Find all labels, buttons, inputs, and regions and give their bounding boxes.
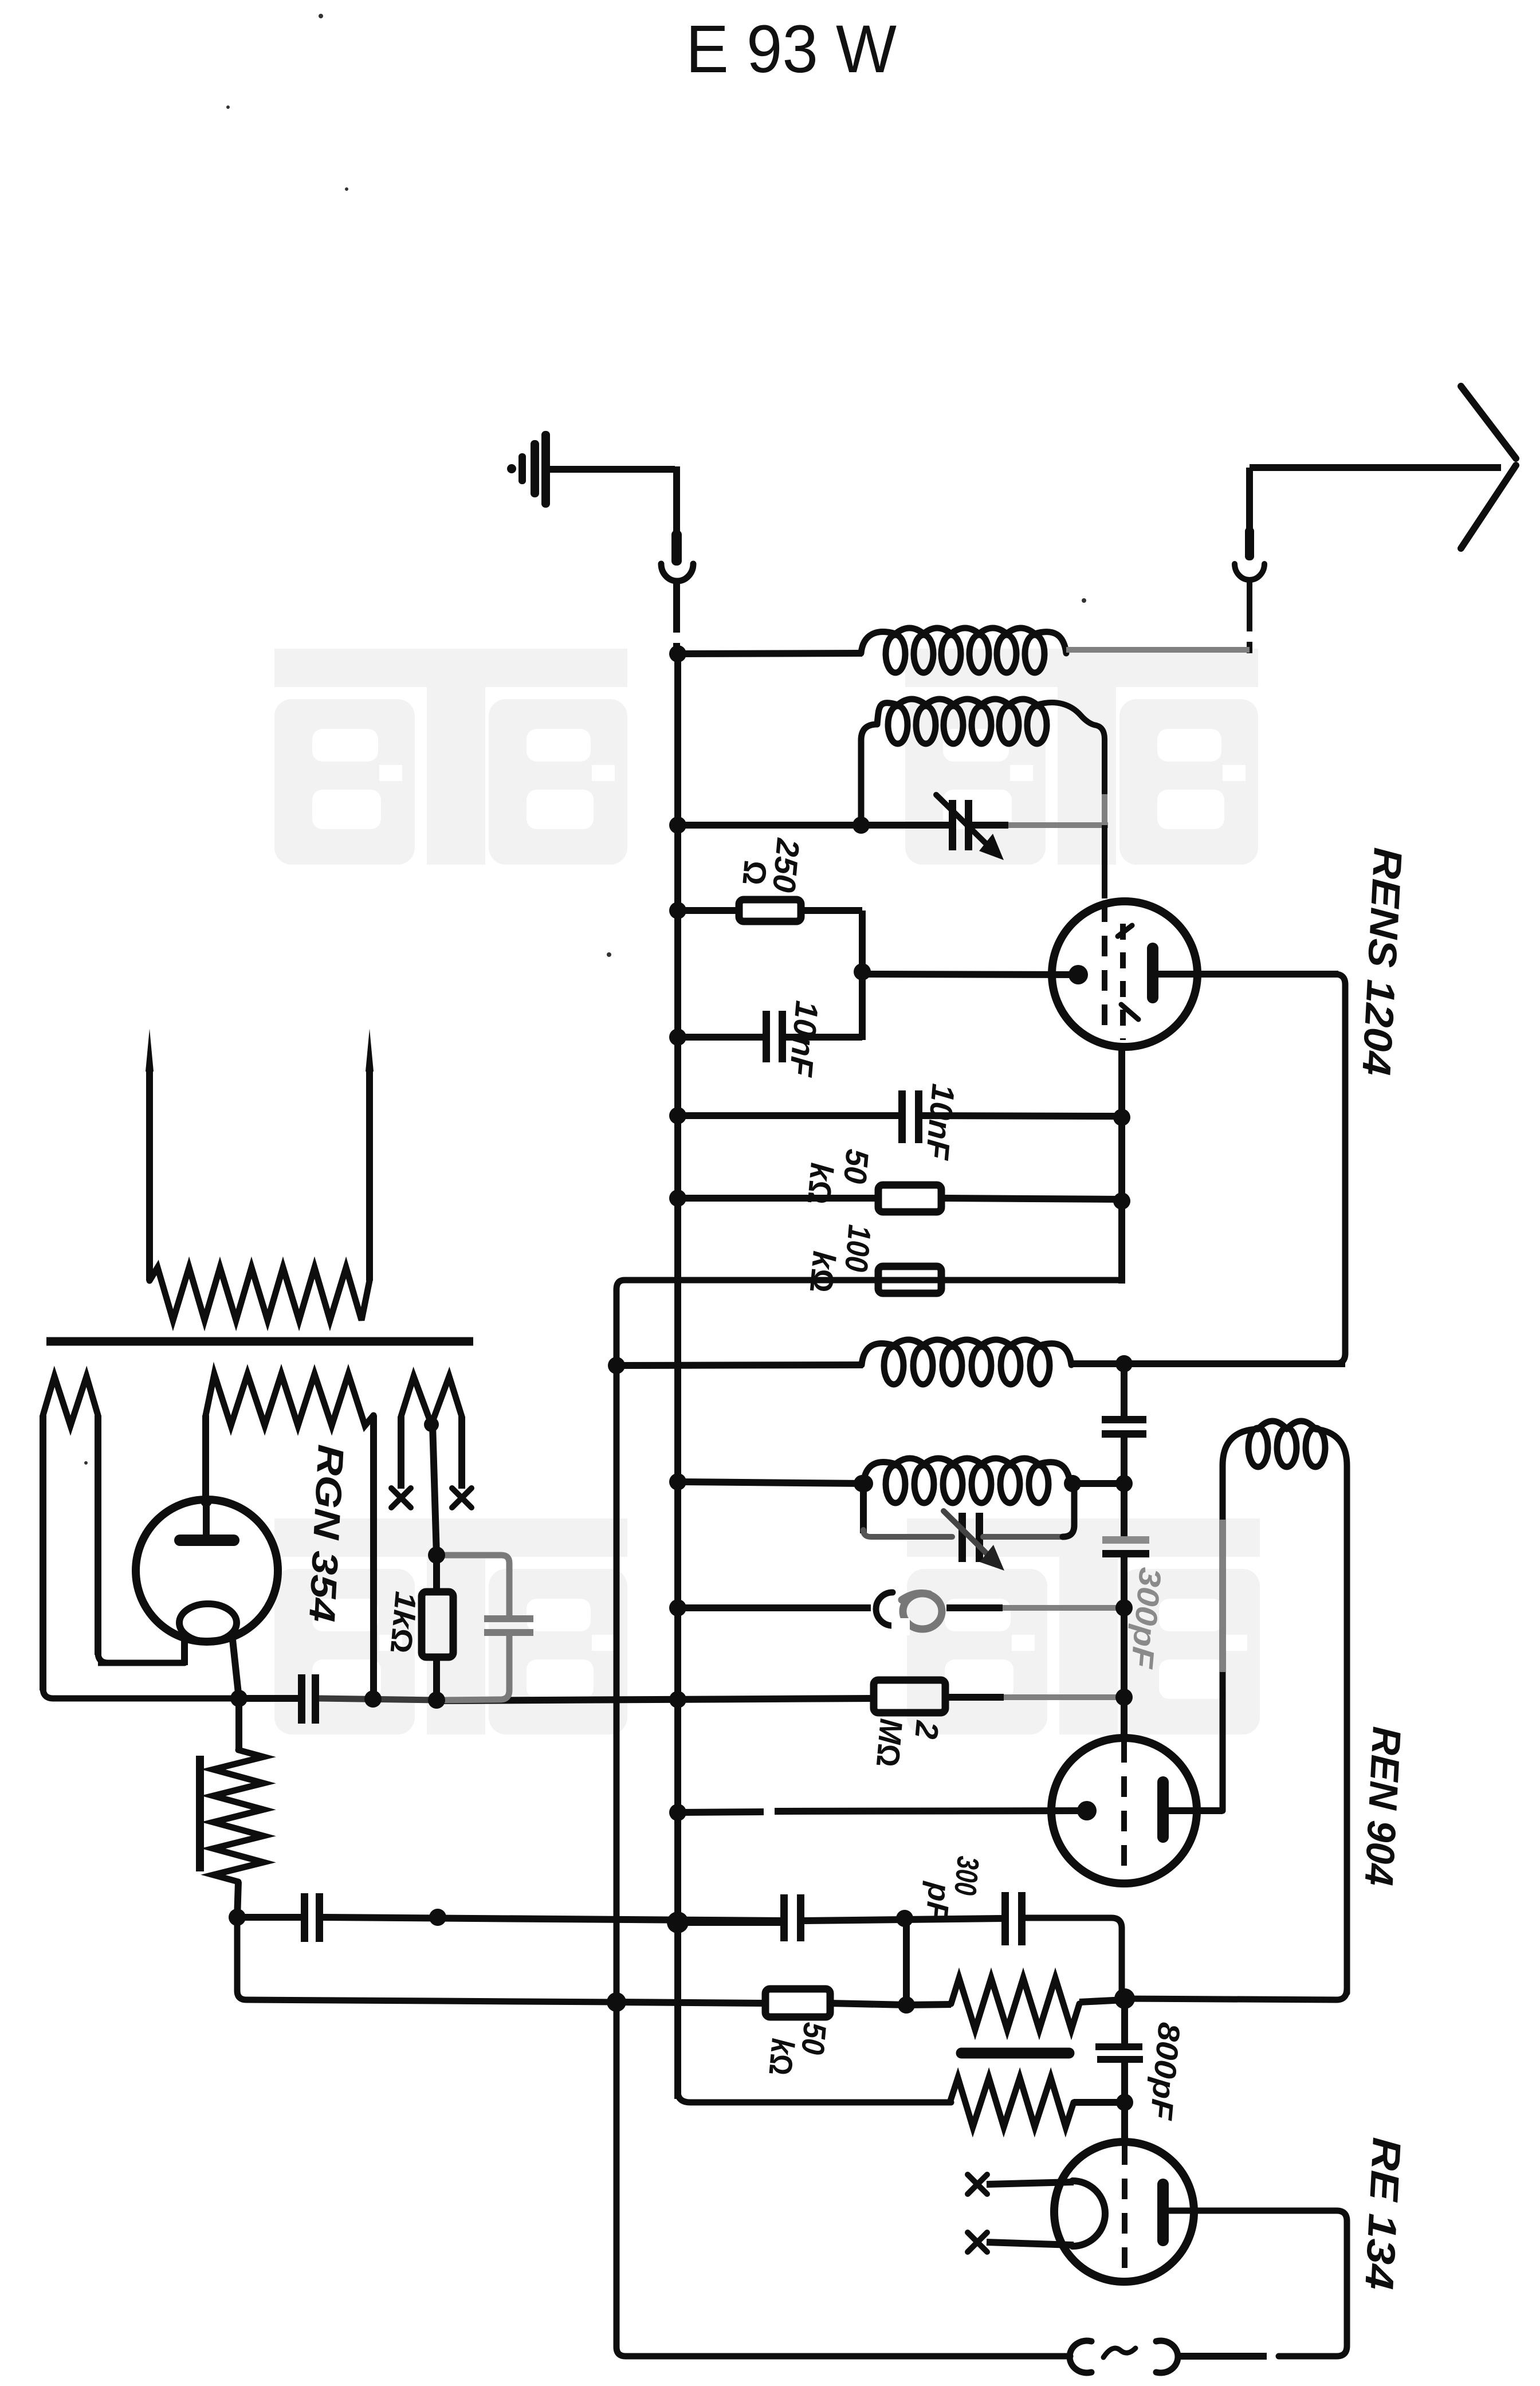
svg-text:1kΩ: 1kΩ	[384, 1590, 422, 1655]
svg-text:kΩ: kΩ	[801, 1161, 840, 1206]
svg-text:kΩ: kΩ	[803, 1250, 843, 1294]
svg-text:50: 50	[837, 1148, 876, 1185]
svg-text:RE 134: RE 134	[1357, 2136, 1409, 2291]
svg-text:pF: pF	[919, 1880, 957, 1923]
svg-text:10nF: 10nF	[919, 1082, 961, 1162]
svg-text:E 93 W: E 93 W	[686, 11, 897, 87]
svg-text:10nF: 10nF	[783, 999, 825, 1079]
svg-text:kΩ: kΩ	[762, 2037, 801, 2077]
svg-text:100: 100	[838, 1223, 878, 1273]
svg-text:MΩ: MΩ	[870, 1717, 910, 1768]
svg-text:REN 904: REN 904	[1356, 1725, 1409, 1887]
svg-text:Ω: Ω	[736, 859, 774, 886]
svg-text:2: 2	[908, 1719, 946, 1741]
